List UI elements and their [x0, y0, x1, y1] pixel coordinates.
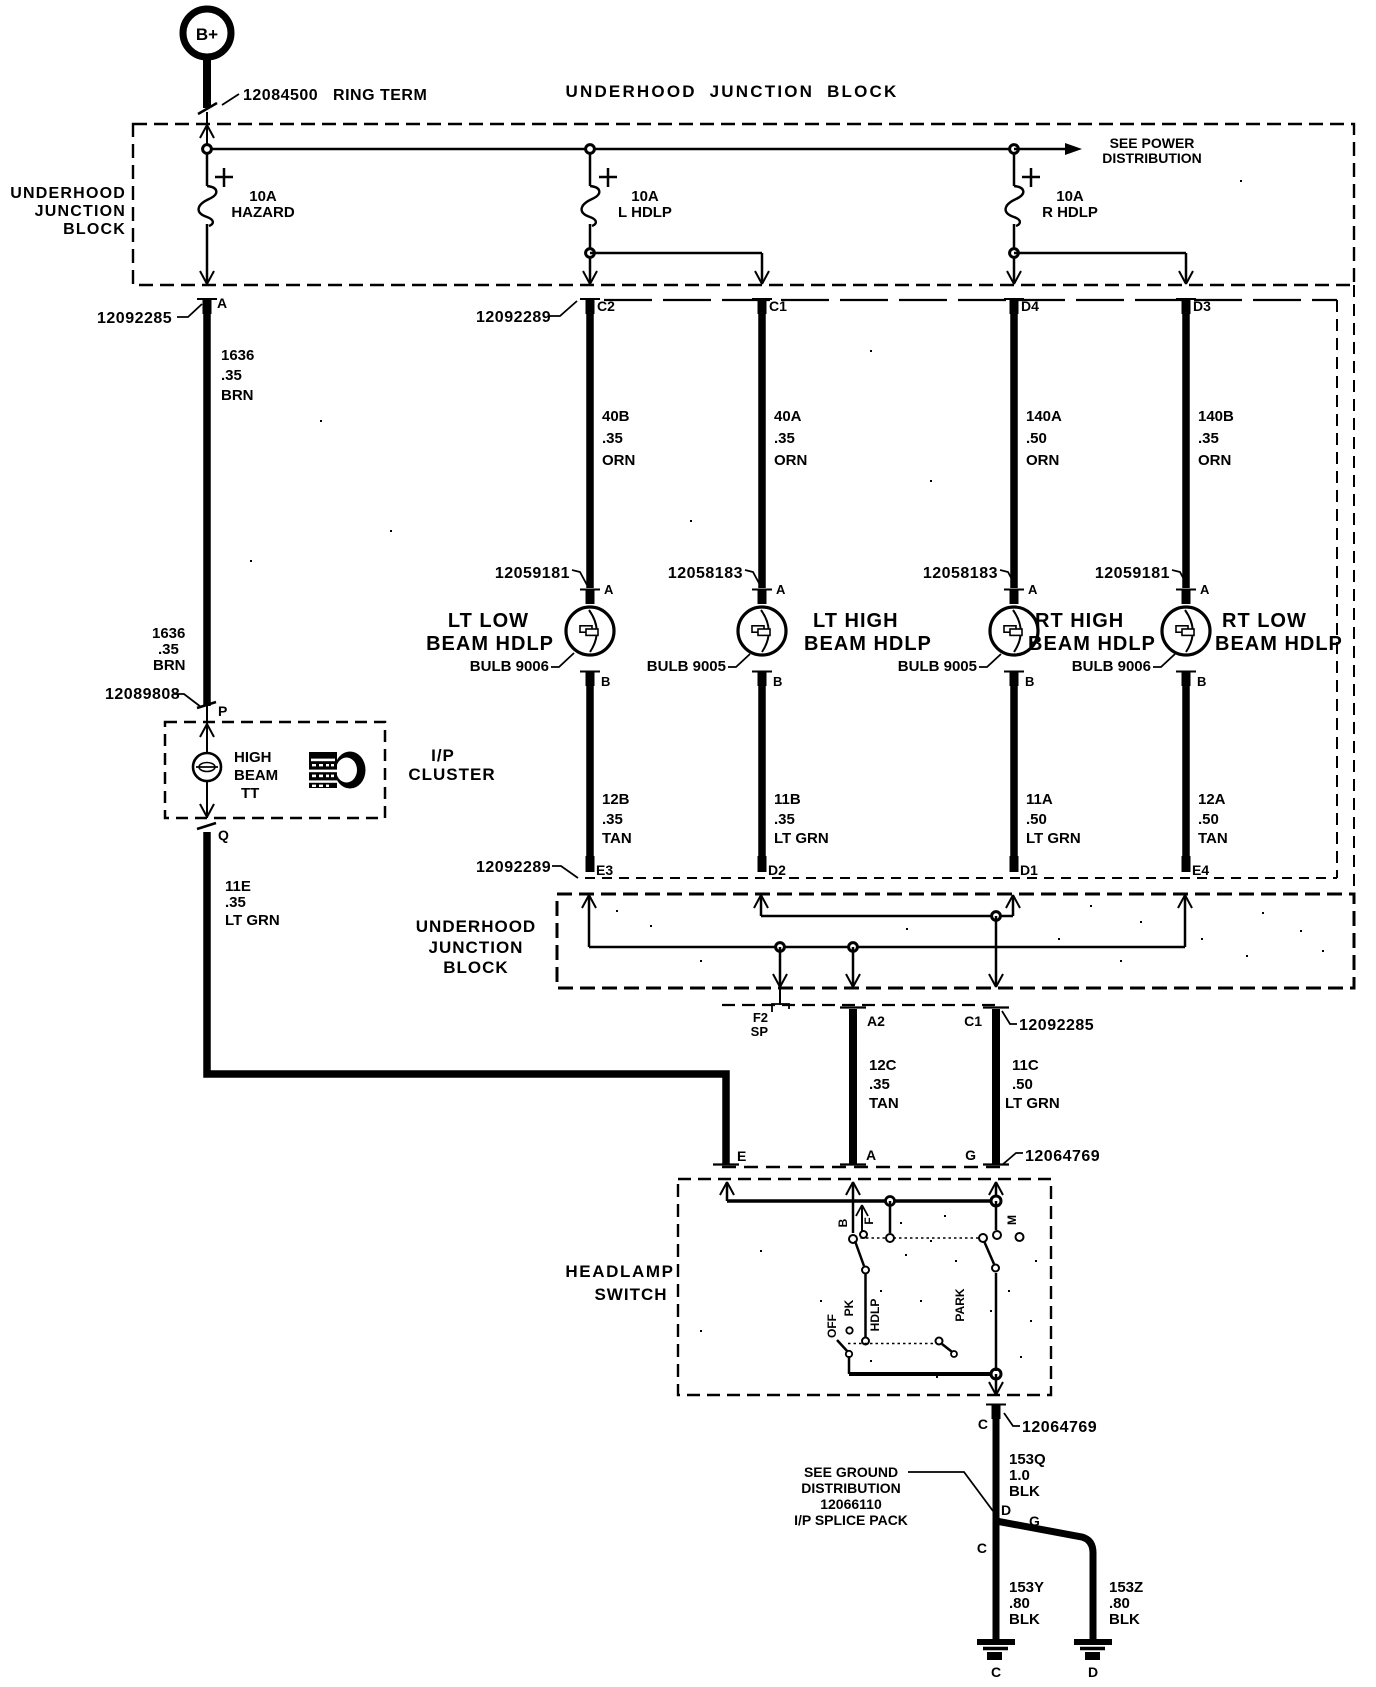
svg-text:DISTRIBUTION: DISTRIBUTION — [1102, 150, 1202, 166]
svg-text:B: B — [1197, 674, 1206, 689]
contact row 1 dotted — [855, 1237, 980, 1239]
svg-text:BLK: BLK — [1009, 1483, 1040, 1500]
svg-text:UNDERHOOD: UNDERHOOD — [10, 185, 126, 202]
svg-text:ORN: ORN — [1026, 452, 1059, 469]
wire OFF contact to common — [848, 1356, 851, 1374]
svg-text:.50: .50 — [1026, 811, 1047, 828]
svg-text:D1: D1 — [1020, 862, 1038, 878]
svg-text:.80: .80 — [1109, 1595, 1130, 1612]
label HEADLAMP SWITCH — [565, 1262, 674, 1304]
terminal A — [197, 295, 227, 314]
connector 12058183 label (RT HIGH) — [923, 565, 1015, 585]
wire 1636 BRN (A to P) — [203, 314, 211, 706]
wire B+ to junction block — [198, 57, 217, 149]
svg-text:A: A — [866, 1147, 876, 1163]
svg-text:TAN: TAN — [602, 830, 632, 847]
svg-text:.50: .50 — [1026, 430, 1047, 447]
node bus-F1 — [203, 145, 212, 154]
svg-text:HIGH: HIGH — [234, 749, 272, 766]
underhood junction block (top) dashed box — [133, 124, 1354, 285]
connector 12084500 RING TERM label — [222, 87, 427, 105]
svg-text:.35: .35 — [225, 894, 246, 911]
fuse F1 10A HAZARD — [199, 153, 295, 284]
svg-text:ORN: ORN — [1198, 452, 1231, 469]
svg-text:BRN: BRN — [221, 387, 254, 404]
wire D2 to D1 inside block — [761, 915, 1013, 918]
wire common bottom bar — [849, 1372, 996, 1376]
headlamp connector dashed box (middle) — [585, 285, 1354, 894]
svg-text:SEE GROUND: SEE GROUND — [804, 1464, 898, 1480]
svg-text:F: F — [862, 1217, 876, 1224]
svg-text:E: E — [737, 1148, 746, 1164]
svg-text:40A: 40A — [774, 408, 802, 425]
svg-text:12092289: 12092289 — [476, 859, 551, 876]
contact HDLP top — [862, 1267, 869, 1274]
ground G203 (C) — [977, 1642, 1015, 1680]
svg-text:12089808: 12089808 — [105, 686, 180, 703]
svg-text:11A: 11A — [1026, 791, 1053, 808]
wire 40A ORN (C1 to LT HIGH bulb) — [762, 314, 807, 588]
label HIGH BEAM TT — [234, 749, 278, 802]
ground G204 (D) — [1074, 1642, 1112, 1680]
svg-text:12A: 12A — [1198, 791, 1226, 808]
svg-text:BEAM HDLP: BEAM HDLP — [804, 633, 932, 655]
wire 153Z branch G — [996, 1513, 1093, 1641]
wire 140A ORN (D4 to RT HIGH bulb) — [1014, 314, 1062, 588]
contact at x890 — [886, 1234, 894, 1242]
pin B of LT LOW bulb — [580, 672, 610, 690]
pin B of RT LOW bulb — [1176, 672, 1206, 690]
label 153Z .80 BLK — [1109, 1579, 1143, 1628]
svg-text:BLK: BLK — [1009, 1611, 1040, 1628]
svg-text:.35: .35 — [774, 811, 795, 828]
pin A of LT HIGH bulb — [752, 582, 786, 604]
blade PARK — [942, 1344, 956, 1355]
underhood junction block (lower) dashed box — [557, 894, 1354, 988]
connector 12092289 label (E3) — [476, 859, 578, 878]
svg-text:BULB 9006: BULB 9006 — [470, 658, 549, 675]
lamp RT LOW BEAM HDLP — [1162, 607, 1343, 655]
node F3 out — [1010, 249, 1019, 258]
svg-text:.50: .50 — [1012, 1076, 1033, 1093]
wire E3 into block — [582, 895, 596, 947]
svg-text:140A: 140A — [1026, 408, 1062, 425]
pin A of RT HIGH bulb — [1004, 582, 1038, 604]
label SEE GROUND DISTRIBUTION I/P SPLICE PACK — [794, 1464, 993, 1528]
headlamp switch dashed box — [678, 1179, 1051, 1395]
svg-text:SEE POWER: SEE POWER — [1110, 135, 1195, 151]
wire splice down to C1 — [989, 916, 1003, 987]
svg-text:TT: TT — [241, 785, 259, 802]
fuse F2 10A L HDLP — [582, 153, 672, 284]
headlamp indicator icon — [309, 752, 366, 789]
wire E to G feed bar — [727, 1199, 996, 1203]
wire 12C TAN (A2 to switch A) — [853, 1009, 899, 1164]
svg-text:ORN: ORN — [602, 452, 635, 469]
svg-text:TAN: TAN — [869, 1095, 899, 1112]
wire E4 into block — [1178, 895, 1192, 947]
lamp RT HIGH BEAM HDLP — [990, 607, 1156, 655]
wire 11C LT GRN (C1 to switch G) — [996, 1009, 1060, 1164]
wire E3 to E4 inside block — [589, 946, 1185, 949]
svg-text:A2: A2 — [867, 1013, 885, 1029]
svg-text:.35: .35 — [1198, 430, 1219, 447]
svg-text:.35: .35 — [158, 641, 179, 658]
svg-text:BULB 9005: BULB 9005 — [647, 658, 726, 675]
svg-text:E3: E3 — [596, 862, 613, 878]
svg-text:1636: 1636 — [221, 347, 254, 364]
svg-text:D2: D2 — [768, 862, 786, 878]
svg-text:12084500 RING TERM: 12084500 RING TERM — [243, 87, 427, 104]
contact G column mid — [992, 1265, 999, 1272]
label BULB 9005 (LT HIGH) — [647, 654, 750, 675]
wire 40B ORN (C2 to LT LOW bulb) — [590, 314, 635, 588]
svg-text:PARK: PARK — [953, 1288, 967, 1321]
svg-text:C: C — [977, 1540, 987, 1556]
fuse F3 10A R HDLP — [1006, 153, 1098, 284]
svg-text:G: G — [965, 1147, 976, 1163]
wire 11E LT GRN (Q to headlamp switch E) — [207, 832, 726, 1164]
svg-text:.35: .35 — [869, 1076, 890, 1093]
svg-text:BLK: BLK — [1109, 1611, 1140, 1628]
connector 12089808 label (P) — [105, 686, 201, 707]
pin B of RT HIGH bulb — [1004, 672, 1034, 690]
svg-text:BEAM HDLP: BEAM HDLP — [1215, 633, 1343, 655]
terminal D3 — [1176, 298, 1211, 314]
svg-text:11B: 11B — [774, 791, 801, 808]
scan noise speckles (decorative) — [250, 180, 1324, 1378]
svg-text:BEAM HDLP: BEAM HDLP — [426, 633, 554, 655]
svg-text:A: A — [776, 582, 786, 597]
connector 12092289 label (C2) — [476, 301, 577, 326]
node splice F2 — [776, 943, 785, 952]
blade OFF — [837, 1340, 848, 1352]
svg-text:12092285: 12092285 — [97, 310, 172, 327]
svg-text:BEAM: BEAM — [234, 767, 278, 784]
connector 12059181 label (RT LOW) — [1095, 565, 1187, 585]
svg-text:OFF: OFF — [825, 1314, 839, 1338]
node feed at G — [991, 1196, 1001, 1206]
svg-text:LT GRN: LT GRN — [774, 830, 829, 847]
svg-text:A: A — [217, 295, 227, 311]
wire G node down to contact — [995, 1201, 998, 1230]
svg-text:C1: C1 — [964, 1013, 982, 1029]
svg-text:BLOCK: BLOCK — [443, 958, 508, 977]
svg-text:RT LOW: RT LOW — [1222, 610, 1307, 632]
terminal A2 — [840, 1008, 885, 1030]
svg-text:12059181: 12059181 — [495, 565, 570, 582]
svg-text:1636: 1636 — [152, 625, 185, 642]
pin B of LT HIGH bulb — [752, 672, 782, 690]
terminal C2 — [580, 298, 615, 314]
terminal C (switch output) — [978, 1405, 1006, 1433]
svg-text:140B: 140B — [1198, 408, 1234, 425]
svg-text:12092289: 12092289 — [476, 309, 551, 326]
wire into cluster — [200, 706, 214, 753]
node F2 out — [586, 249, 595, 258]
terminal E — [713, 1148, 746, 1165]
svg-text:LT LOW: LT LOW — [448, 610, 529, 632]
svg-text:E4: E4 — [1192, 862, 1209, 878]
node bus-F3 — [1010, 145, 1019, 154]
svg-text:LT GRN: LT GRN — [225, 912, 280, 929]
svg-text:BEAM HDLP: BEAM HDLP — [1028, 633, 1156, 655]
lamp LT HIGH BEAM HDLP — [738, 607, 932, 655]
svg-text:A: A — [1200, 582, 1210, 597]
svg-text:TAN: TAN — [1198, 830, 1228, 847]
contact at G — [993, 1231, 1001, 1239]
wire to SEE POWER DISTRIBUTION arrow — [1014, 143, 1082, 155]
wire D1 into block — [1006, 895, 1020, 916]
connector 12058183 label (LT HIGH) — [668, 565, 760, 585]
splice F2 SP stub — [751, 988, 789, 1039]
label SEE POWER DISTRIBUTION — [1102, 135, 1202, 166]
contact F arrow — [856, 1205, 868, 1238]
contact B — [849, 1235, 857, 1243]
wire 11A LT GRN (bulb to D1) — [1010, 686, 1081, 872]
contact M — [1016, 1233, 1024, 1241]
blade G to PARK column — [984, 1241, 994, 1264]
svg-text:HEADLAMP: HEADLAMP — [565, 1262, 674, 1281]
svg-text:B: B — [1025, 674, 1034, 689]
svg-text:UNDERHOOD: UNDERHOOD — [416, 917, 536, 936]
label wire 1636 .35 BRN (lower) — [152, 625, 186, 674]
svg-text:CLUSTER: CLUSTER — [408, 765, 495, 784]
wire common out of switch — [989, 1374, 1003, 1395]
svg-text:1.0: 1.0 — [1009, 1467, 1030, 1484]
node common at G column — [991, 1369, 1001, 1379]
svg-text:Q: Q — [218, 827, 229, 843]
pin A of RT LOW bulb — [1176, 582, 1210, 604]
wire F3 branch to D3 — [1014, 253, 1193, 284]
svg-text:JUNCTION: JUNCTION — [429, 938, 524, 957]
node splice on D2-D1 wire — [992, 912, 1001, 921]
svg-text:12059181: 12059181 — [1095, 565, 1170, 582]
svg-text:11E: 11E — [225, 878, 251, 895]
label 153Y .80 BLK — [1009, 1579, 1044, 1628]
battery B+ terminal — [183, 9, 231, 57]
terminal C1 (to switch) — [964, 1008, 1009, 1030]
wire F2 branch to C1 — [590, 253, 769, 284]
svg-text:LT GRN: LT GRN — [1026, 830, 1081, 847]
svg-text:DISTRIBUTION: DISTRIBUTION — [801, 1480, 901, 1496]
wire 140B ORN (D3 to RT LOW bulb) — [1186, 314, 1234, 588]
svg-text:12058183: 12058183 — [923, 565, 998, 582]
wire 12B TAN (bulb to E3) — [586, 686, 632, 872]
svg-text:12058183: 12058183 — [668, 565, 743, 582]
svg-text:D: D — [1001, 1502, 1011, 1518]
wire G column (contact to common) — [995, 1273, 998, 1371]
svg-text:.35: .35 — [774, 430, 795, 447]
svg-text:10A: 10A — [631, 188, 659, 205]
wire 11B LT GRN (bulb to D2) — [758, 686, 829, 872]
svg-text:40B: 40B — [602, 408, 630, 425]
connector 12092285 label (C1) — [1002, 1011, 1094, 1034]
contact row2 right — [936, 1338, 943, 1345]
svg-text:SP: SP — [751, 1024, 769, 1039]
connector row dashed line under block — [722, 1004, 1002, 1006]
svg-text:12B: 12B — [602, 791, 630, 808]
svg-text:.35: .35 — [221, 367, 242, 384]
svg-text:.80: .80 — [1009, 1595, 1030, 1612]
lamp LT LOW BEAM HDLP — [426, 607, 614, 655]
svg-text:D: D — [1088, 1664, 1098, 1680]
contact blade PARK end — [951, 1351, 957, 1357]
svg-text:BLOCK: BLOCK — [63, 221, 126, 238]
label BULB 9005 (RT HIGH) — [898, 654, 1001, 675]
svg-text:B+: B+ — [196, 25, 218, 44]
svg-text:BULB 9005: BULB 9005 — [898, 658, 977, 675]
wire out of cluster — [200, 781, 214, 818]
label I/P CLUSTER — [408, 746, 495, 784]
pin A of LT LOW bulb — [580, 582, 614, 604]
svg-text:153Q: 153Q — [1009, 1451, 1046, 1468]
svg-text:ORN: ORN — [774, 452, 807, 469]
contact HDLP bottom — [862, 1338, 869, 1345]
svg-text:B: B — [773, 674, 782, 689]
svg-text:I/P: I/P — [431, 746, 455, 765]
wire E into switch — [720, 1182, 734, 1201]
svg-text:HAZARD: HAZARD — [231, 204, 294, 221]
connector 12059181 label (LT LOW) — [495, 565, 587, 585]
svg-text:B: B — [601, 674, 610, 689]
node bus-F2 — [586, 145, 595, 154]
label wire 1636 .35 BRN (upper) — [221, 347, 254, 404]
svg-text:PK: PK — [842, 1299, 856, 1316]
svg-text:I/P SPLICE PACK: I/P SPLICE PACK — [794, 1512, 908, 1528]
svg-text:C: C — [978, 1416, 988, 1432]
svg-text:11C: 11C — [1012, 1057, 1039, 1074]
svg-text:12066110: 12066110 — [820, 1496, 882, 1512]
wire D2 into block — [754, 895, 768, 916]
svg-text:M: M — [1005, 1215, 1019, 1225]
wire 12A TAN (bulb to E4) — [1182, 686, 1228, 872]
connector 12064769 label (E-A-G) — [1002, 1148, 1100, 1165]
svg-text:JUNCTION: JUNCTION — [35, 203, 126, 220]
wire G into switch — [989, 1182, 1003, 1201]
svg-text:SWITCH: SWITCH — [594, 1285, 667, 1304]
contact row 2 dotted — [848, 1343, 936, 1345]
svg-text:10A: 10A — [249, 188, 277, 205]
svg-text:G: G — [1029, 1513, 1040, 1529]
terminal Q — [197, 823, 229, 843]
label UNDERHOOD JUNCTION BLOCK (left) — [10, 185, 126, 238]
svg-text:UNDERHOOD JUNCTION BLOCK: UNDERHOOD JUNCTION BLOCK — [565, 82, 898, 101]
svg-text:.35: .35 — [602, 811, 623, 828]
svg-text:A: A — [604, 582, 614, 597]
terminal D4 — [1004, 298, 1039, 314]
svg-text:HDLP: HDLP — [868, 1299, 882, 1332]
wire A into switch — [846, 1182, 860, 1233]
svg-text:.35: .35 — [602, 430, 623, 447]
node splice A2 — [849, 943, 858, 952]
connector row dashed line above switch — [722, 1166, 1003, 1169]
contact at x983 — [979, 1234, 987, 1242]
terminal C1 — [752, 298, 787, 314]
svg-text:153Y: 153Y — [1009, 1579, 1044, 1596]
label UNDERHOOD JUNCTION BLOCK (middle) — [416, 917, 536, 977]
svg-text:.50: .50 — [1198, 811, 1219, 828]
svg-text:12092285: 12092285 — [1019, 1017, 1094, 1034]
svg-text:153Z: 153Z — [1109, 1579, 1143, 1596]
svg-text:LT GRN: LT GRN — [1005, 1095, 1060, 1112]
label BULB 9006 (RT LOW) — [1072, 654, 1175, 675]
label BULB 9006 (LT LOW) — [470, 653, 574, 675]
wire 153Q BLK (C to splice) — [996, 1419, 1046, 1640]
svg-text:R HDLP: R HDLP — [1042, 204, 1098, 221]
connector 12092285 label (A) — [97, 304, 202, 327]
switch blade B to HDLP — [855, 1241, 864, 1266]
wire A2 splice down — [846, 947, 860, 987]
bus wire B+ feed — [207, 148, 1014, 151]
svg-text:P: P — [218, 703, 227, 719]
wire node down to contact — [889, 1201, 892, 1233]
terminal G — [965, 1147, 1009, 1165]
svg-text:L HDLP: L HDLP — [618, 204, 672, 221]
wire F2 splice down — [773, 947, 787, 987]
svg-text:F2: F2 — [753, 1010, 768, 1025]
contact PK dot — [846, 1327, 852, 1333]
I/P cluster dashed box — [165, 722, 385, 818]
contact OFF end — [846, 1351, 852, 1357]
svg-text:12C: 12C — [869, 1057, 897, 1074]
svg-text:10A: 10A — [1056, 188, 1084, 205]
svg-text:12064769: 12064769 — [1025, 1148, 1100, 1165]
indicator lamp HIGH BEAM — [193, 753, 221, 781]
svg-text:LT HIGH: LT HIGH — [813, 610, 899, 632]
svg-text:RT HIGH: RT HIGH — [1035, 610, 1124, 632]
node feed at x889 — [886, 1197, 895, 1206]
wire HDLP contact down — [864, 1273, 867, 1338]
svg-text:C: C — [991, 1664, 1001, 1680]
terminal P — [197, 702, 227, 719]
svg-text:BRN: BRN — [153, 657, 186, 674]
terminal A — [840, 1147, 876, 1165]
svg-text:B: B — [836, 1218, 850, 1227]
svg-text:A: A — [1028, 582, 1038, 597]
svg-text:12064769: 12064769 — [1022, 1419, 1097, 1436]
svg-text:BULB 9006: BULB 9006 — [1072, 658, 1151, 675]
connector 12064769 label (C) — [1004, 1413, 1097, 1436]
